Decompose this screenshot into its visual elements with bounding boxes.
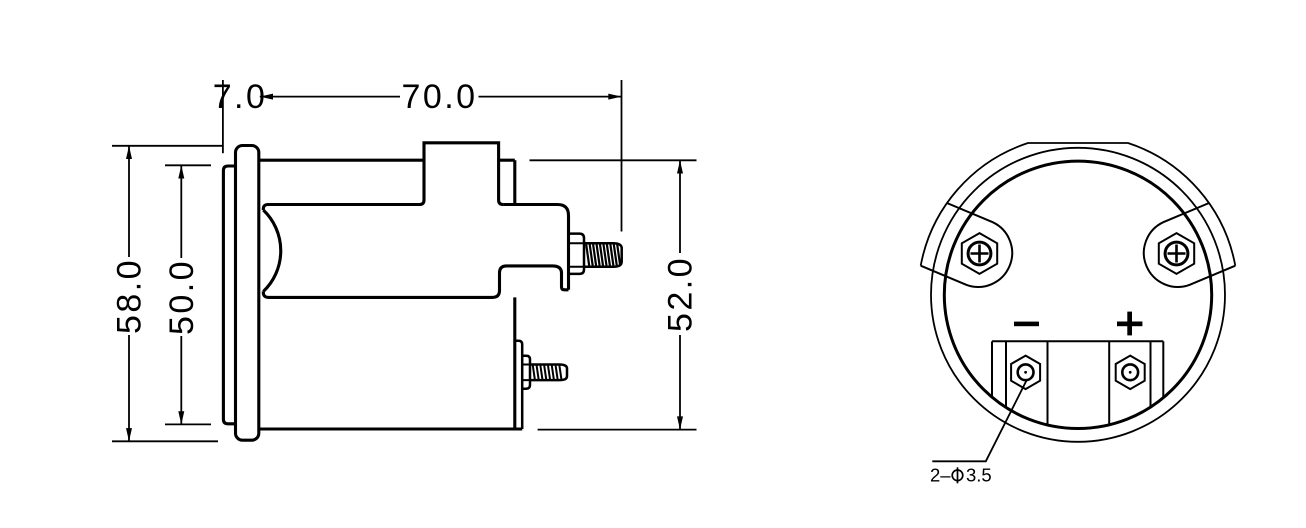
- left screw head: [968, 242, 991, 265]
- dimension 50.0: [163, 165, 211, 424]
- cylinder top right and terminal boss face: [503, 205, 568, 290]
- right terminal nut center dot: [1129, 371, 1132, 374]
- left screw cross: [971, 245, 989, 263]
- right mounting lug: [1144, 203, 1235, 287]
- lower stud nut: [522, 356, 530, 389]
- dimension 58.0: [111, 146, 223, 442]
- svg-text:7.0: 7.0: [213, 78, 268, 116]
- svg-text:70.0: 70.0: [402, 78, 478, 116]
- right terminal nut circle: [1122, 364, 1138, 380]
- dimension 52.0: [530, 160, 700, 429]
- cylinder left end concave arc: [263, 210, 280, 292]
- body right edge upper: [513, 160, 516, 203]
- svg-text:58.0: 58.0: [111, 258, 149, 334]
- polarity minus: [1014, 322, 1039, 327]
- front lip: [223, 166, 235, 424]
- left terminal nut hex: [1011, 356, 1040, 390]
- terminal plate: [515, 341, 522, 429]
- left screw hex: [962, 233, 997, 274]
- body top line left: [259, 159, 424, 162]
- left terminal nut circle: [1018, 364, 1034, 380]
- right terminal nut hex: [1116, 356, 1145, 390]
- left mounting lug: [921, 203, 1012, 287]
- top boss: [420, 143, 504, 205]
- cylinder bottom and relief step: [263, 266, 568, 298]
- lower stud shank lines: [522, 365, 530, 381]
- lower stud thread hatching: [533, 366, 562, 380]
- svg-text:3.5: 3.5: [966, 465, 992, 486]
- upper stud thread body: [584, 243, 622, 266]
- upper stud shank lines: [569, 243, 585, 266]
- body right edge lower: [513, 297, 516, 429]
- svg-text:50.0: 50.0: [163, 259, 201, 335]
- leader 2-dia3.5: [932, 380, 1027, 462]
- body top line right: [499, 159, 515, 162]
- rear case circle: [944, 161, 1211, 428]
- body bottom: [259, 427, 522, 430]
- flange (bezel): [236, 146, 259, 441]
- right screw hex: [1159, 233, 1194, 274]
- lower stud thread body: [530, 365, 567, 381]
- terminal block top edge: [992, 340, 1163, 342]
- svg-text:52.0: 52.0: [662, 256, 700, 332]
- mounting bracket strap: [921, 143, 1236, 266]
- dimension 7.0: [213, 78, 268, 153]
- dimension 70.0: [260, 78, 622, 231]
- cylinder top left: [263, 205, 419, 211]
- polarity plus: [1117, 322, 1142, 327]
- left terminal nut center dot: [1024, 371, 1027, 374]
- right screw cross: [1168, 245, 1186, 263]
- rear flange circle: [931, 148, 1225, 442]
- upper stud thread hatching: [586, 244, 620, 265]
- upper stud nut: [569, 234, 585, 274]
- terminal block verticals: [992, 341, 1163, 425]
- svg-text:2–: 2–: [930, 465, 951, 486]
- right screw head: [1165, 242, 1188, 265]
